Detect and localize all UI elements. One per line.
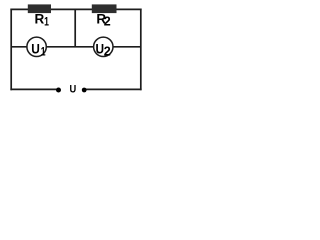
wire : left side	[10, 9, 12, 91]
node : right terminal	[82, 88, 87, 93]
svg-text:R: R	[35, 12, 45, 27]
resistor R1	[28, 4, 51, 28]
node : left terminal	[56, 88, 61, 93]
resistor R2	[92, 4, 117, 28]
svg-text:2: 2	[104, 45, 111, 59]
svg-text:U: U	[70, 84, 77, 96]
svg-text:1: 1	[44, 16, 49, 29]
voltage source U1	[27, 37, 46, 59]
voltage source U2	[94, 37, 113, 58]
wire : bottom left segment	[10, 88, 58, 90]
wire : middle vertical branch	[74, 9, 76, 47]
wire : right side	[140, 9, 142, 91]
svg-text:U: U	[31, 41, 40, 57]
wire : top rail	[10, 8, 141, 10]
svg-text:2: 2	[104, 14, 111, 28]
wire : middle horizontal rail	[11, 46, 141, 48]
wire : bottom right segment	[84, 88, 141, 90]
svg-text:1: 1	[41, 47, 46, 60]
